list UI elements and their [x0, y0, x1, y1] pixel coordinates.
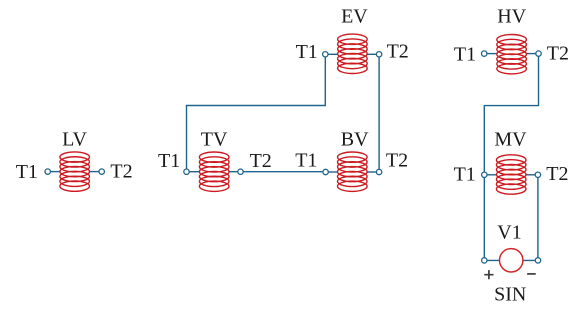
wire MV.T1 down to V1 plus (net 5)	[484, 175, 499, 261]
svg-text:T1: T1	[295, 150, 317, 172]
wire stub MV.T2	[526, 174, 538, 176]
terminal TV.T1	[184, 169, 189, 174]
wire TV.T1 riser to EV.T1 (net 1)	[187, 54, 326, 171]
inductor TV coil	[199, 152, 229, 191]
polarity mark minus (V1)	[527, 273, 536, 275]
polarity mark plus (V1)	[484, 270, 493, 279]
terminal MV.T2	[535, 172, 540, 177]
svg-text:T2: T2	[546, 163, 568, 185]
svg-text:T2: T2	[386, 150, 408, 172]
svg-text:T1: T1	[454, 43, 476, 65]
inductor LV coil	[60, 152, 90, 191]
terminal HV.T2	[536, 51, 541, 56]
wire stub LV.T1	[48, 171, 60, 173]
svg-text:MV: MV	[494, 129, 527, 151]
terminal BV.T2	[376, 169, 381, 174]
terminal V1 plus	[482, 258, 487, 263]
terminal LV.T2	[99, 169, 104, 174]
voltage source V1 circle	[500, 249, 523, 272]
svg-text:BV: BV	[341, 129, 369, 151]
wire stub TV.T1	[187, 171, 200, 173]
wire stub EV.T2	[367, 53, 379, 55]
wire stub BV.T2	[367, 171, 379, 173]
svg-text:HV: HV	[497, 5, 526, 27]
wire HV.T2 jog down to MV.T1 (net 4)	[484, 54, 538, 175]
terminal V1 minus	[535, 258, 540, 263]
wire MV.T2 down to V1 minus (net 6)	[523, 175, 538, 261]
inductor EV coil	[338, 34, 368, 73]
terminal TV.T2	[238, 169, 243, 174]
wire stub BV.T1	[326, 171, 338, 173]
terminal EV.T2	[376, 52, 381, 57]
wire TV.T2 to BV.T1 (net 3)	[241, 171, 326, 173]
wire stub LV.T2	[89, 171, 101, 173]
svg-text:LV: LV	[62, 128, 87, 150]
wire EV.T2 down to BV.T2 (net 2)	[378, 54, 380, 172]
svg-text:EV: EV	[341, 5, 368, 27]
svg-text:T1: T1	[16, 161, 38, 183]
terminal MV.T1	[482, 172, 487, 177]
svg-text:TV: TV	[201, 128, 228, 150]
wire stub HV.T2	[526, 53, 538, 55]
wire stub MV.T1	[484, 174, 496, 176]
terminal HV.T1	[482, 51, 487, 56]
svg-text:V1: V1	[497, 222, 521, 244]
inductor BV coil	[338, 152, 368, 191]
wire stub EV.T1	[325, 53, 337, 55]
svg-text:T2: T2	[547, 43, 569, 65]
svg-text:T1: T1	[454, 164, 476, 186]
svg-text:T2: T2	[387, 41, 409, 63]
svg-text:T1: T1	[296, 41, 318, 63]
svg-text:T1: T1	[158, 150, 180, 172]
terminal LV.T1	[45, 169, 50, 174]
svg-text:SIN: SIN	[494, 284, 526, 306]
svg-text:T2: T2	[250, 150, 272, 172]
inductor MV coil	[496, 155, 526, 194]
terminal EV.T1	[323, 52, 328, 57]
terminal BV.T1	[323, 169, 328, 174]
wire stub TV.T2	[229, 171, 241, 173]
svg-text:T2: T2	[110, 161, 132, 183]
wire stub HV.T1	[484, 53, 497, 55]
inductor HV coil	[497, 35, 527, 74]
